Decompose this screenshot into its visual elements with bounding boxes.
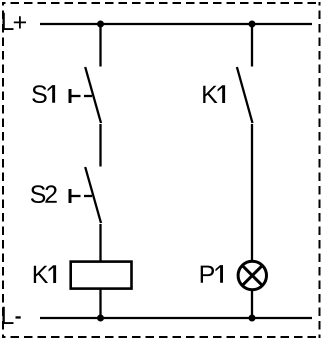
switch S2 (NO pushbutton contact): [70, 167, 101, 223]
node L+ rail: [40, 23, 312, 25]
wire: coil K1 to L-: [99, 290, 101, 319]
junction top-left: [97, 21, 104, 28]
wire: L+ to contact K1: [251, 24, 253, 67]
label L-: [3, 307, 21, 324]
wire: contact K1 to lamp P1: [251, 124, 253, 261]
node L- rail: [40, 317, 312, 319]
label S2: [31, 185, 57, 203]
wire: L+ to S1: [99, 24, 101, 67]
indicator lamp P1: [238, 261, 266, 289]
junction bottom-left: [97, 315, 104, 322]
wire: lamp P1 to L-: [251, 290, 253, 318]
label K1 (coil): [34, 265, 56, 283]
label P1: [201, 265, 223, 283]
label S1: [32, 85, 55, 103]
label L+: [3, 13, 27, 30]
wire: S2 to coil K1: [99, 224, 101, 261]
label K1 (contact): [203, 85, 225, 103]
relay contact K1 (NO): [237, 67, 253, 123]
switch S1 (NO pushbutton contact): [70, 67, 101, 123]
relay coil K1: [71, 262, 132, 289]
wire: S1 to S2: [99, 124, 101, 167]
junction bottom-right: [249, 315, 256, 322]
junction top-right: [249, 21, 256, 28]
